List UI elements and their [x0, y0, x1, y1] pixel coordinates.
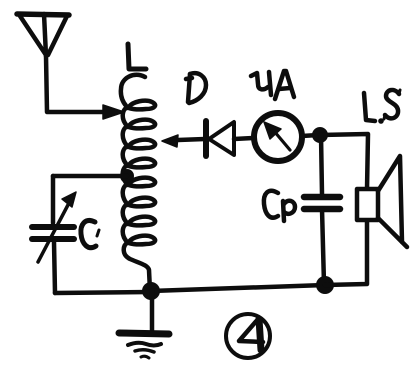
meter uA circle — [254, 113, 302, 161]
node tap on coil — [120, 169, 134, 183]
wire bottom rail right — [151, 285, 325, 291]
wire diode to meter — [234, 138, 253, 139]
variable capacitor arrow — [38, 192, 76, 262]
label uA — [251, 71, 294, 99]
diode D triangle — [209, 122, 234, 155]
speaker LS — [357, 156, 407, 247]
wire meter to junction — [302, 135, 318, 136]
arrow at coil from diode — [162, 135, 178, 147]
variable capacitor C plates — [32, 227, 74, 239]
label L.S — [364, 90, 400, 124]
label Cp — [264, 191, 295, 221]
diode D cathode bar — [203, 121, 209, 156]
inductor L — [121, 75, 155, 291]
capacitor Cp plates — [304, 197, 340, 209]
node bottom junction right — [316, 276, 334, 294]
wire bottom rail left — [55, 292, 150, 293]
wire antenna lead — [46, 56, 104, 112]
node junction right of meter — [312, 127, 328, 143]
wire C branch vertical top — [51, 176, 56, 223]
label D — [186, 73, 206, 103]
wire Cp to bottom junction — [322, 209, 324, 284]
wire coil tap to diode arrow — [178, 139, 205, 140]
label L — [128, 44, 146, 69]
wire junction down to Cp — [321, 135, 322, 194]
ground — [119, 291, 169, 358]
meter needle — [264, 122, 290, 150]
wire junction to speaker top — [320, 134, 368, 189]
node bottom junction (coil/ground) — [142, 282, 160, 300]
antenna — [17, 14, 69, 56]
wire tap to C branch — [53, 174, 127, 179]
figure number 4 — [226, 314, 270, 358]
wire C branch vertical bottom — [54, 242, 55, 293]
wire speaker bottom — [325, 220, 367, 285]
arrow into coil — [103, 105, 124, 119]
label C — [81, 220, 96, 247]
